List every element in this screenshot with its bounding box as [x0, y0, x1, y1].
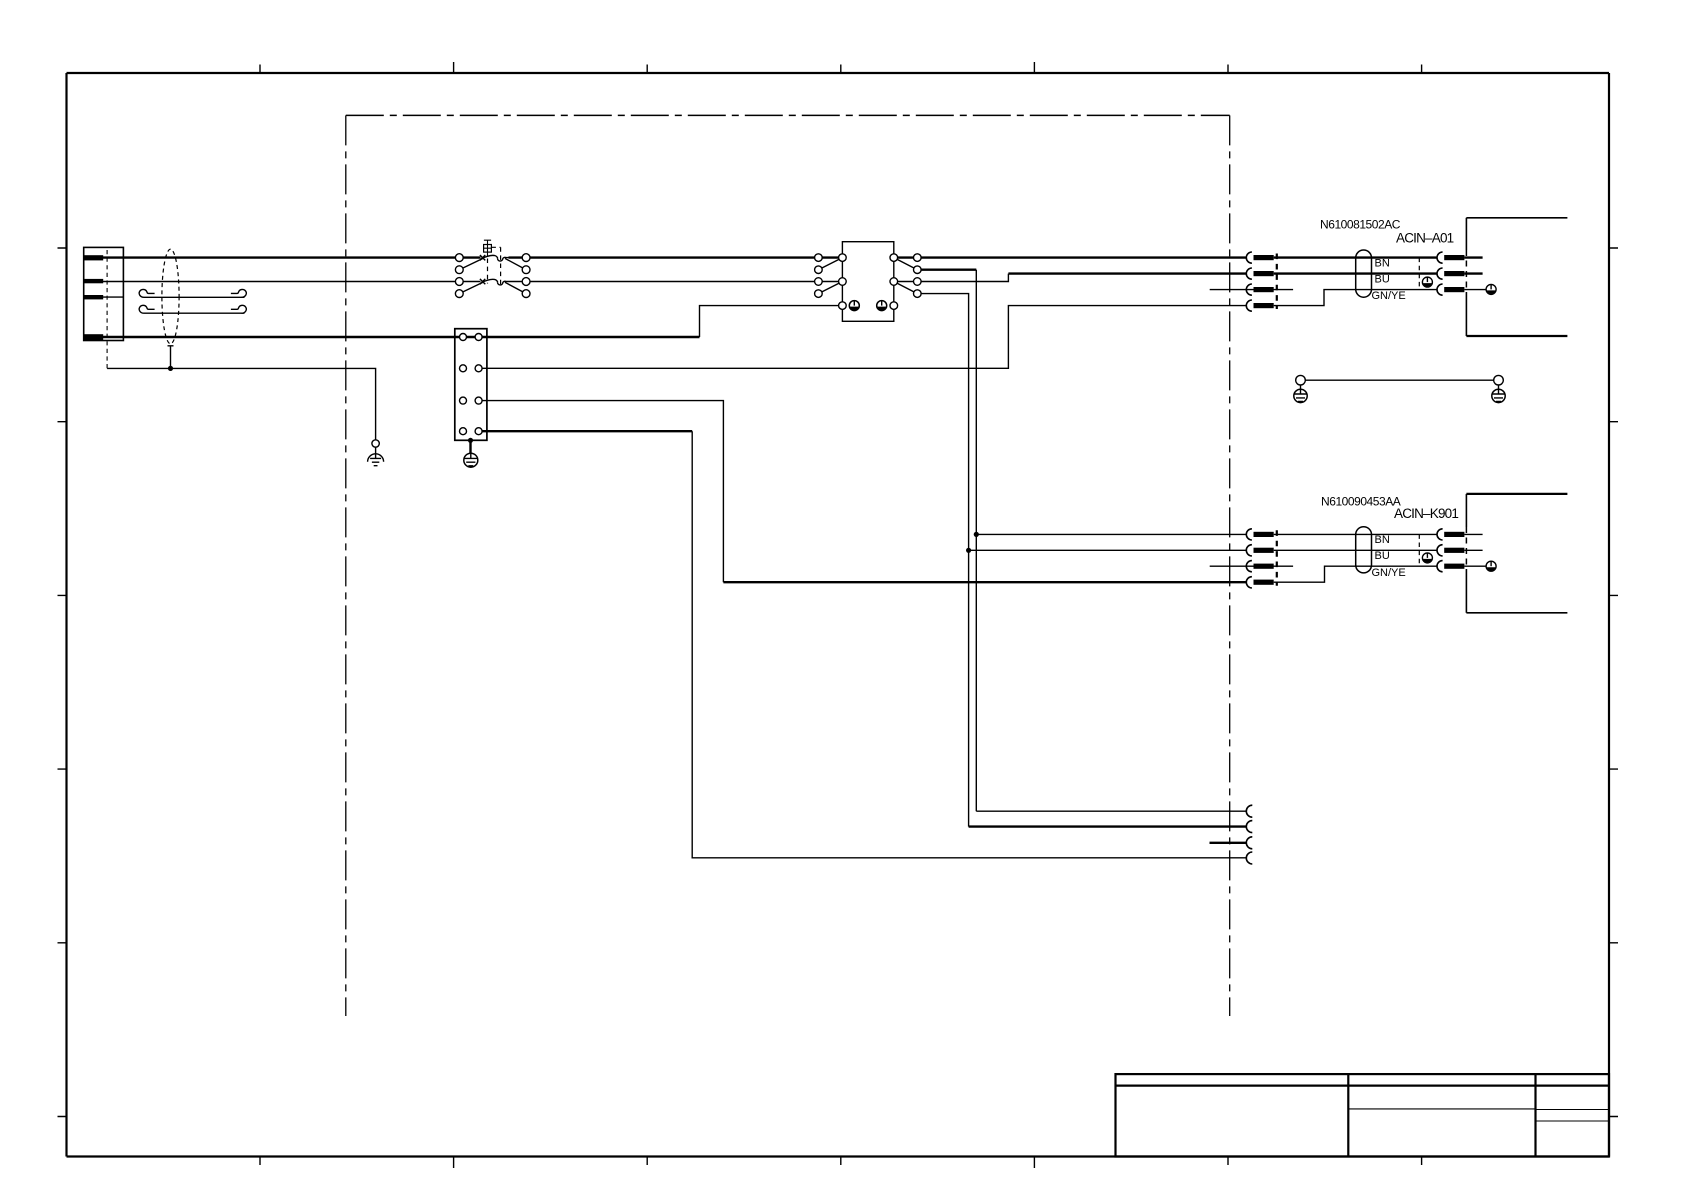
wire BN A01 cable [1274, 256, 1438, 258]
chassis bonding wire between earth posts [1305, 379, 1493, 381]
wire L1 thick filter left pair [822, 256, 842, 258]
spare jumper wire 2 (hooked ends) [139, 305, 246, 313]
wire PE thick from connector X1 to terminal strip [103, 336, 479, 338]
terminal strip X2 [455, 329, 487, 441]
wire GN/YE terminal strip row3 to coil 4 ACIN-K901 [482, 401, 723, 583]
device box ACIN-K901 [1466, 494, 1567, 613]
wire N thin filter left pair [822, 281, 842, 283]
filter internal earth symbol 2 [877, 301, 887, 311]
bottom spare connector coils [1246, 805, 1252, 864]
wire N filter to step-up jog then thick to coil BU A01 [894, 274, 1009, 282]
wire BU K901 cable [1274, 549, 1438, 551]
svg-text:GN/YE: GN/YE [1372, 567, 1406, 579]
connector X1 (input plug) [84, 247, 124, 368]
svg-text:BU: BU [1375, 273, 1390, 285]
filter internal earth symbol 1 [849, 301, 859, 311]
connector coils ACIN-A01 cable side [1210, 252, 1293, 311]
wire L1 thick filter right to connector coil BN A01 [894, 256, 1247, 258]
earth contact symbol A01 right [1486, 284, 1496, 294]
wire N thin breaker to filter [530, 281, 819, 283]
junction shield drain [168, 366, 173, 371]
svg-text:GN/YE: GN/YE [1372, 290, 1406, 302]
earth contact symbol K901 right [1486, 561, 1496, 571]
svg-text:N610090453AA: N610090453AA [1321, 495, 1401, 509]
device box ACIN-A01 [1466, 218, 1567, 336]
cable symbol N610090453AA [1356, 527, 1372, 573]
circuit breaker Q1 (2-pole plug-in) [455, 240, 530, 297]
wire BU A01 cable [1274, 272, 1438, 274]
protective earth symbol under terminal strip [464, 453, 478, 467]
svg-text:BN: BN [1375, 257, 1390, 269]
connector coils ACIN-K901 cable side [1210, 529, 1293, 588]
earth post left [1294, 375, 1307, 402]
GN/YE jog A01 coil4 to plug [1274, 290, 1438, 306]
wire L1 thick breaker to filter [530, 256, 819, 258]
wire filter output down-feed 1 to ACIN-K901 BN and bottom spare 1 [917, 270, 1246, 812]
enclosure boundary (dash-dot chassis outline) [346, 115, 1230, 1016]
svg-text:ACIN–K901: ACIN–K901 [1394, 506, 1458, 521]
earth contact symbol K901 left [1422, 553, 1432, 563]
wire N thin from connector X1 to breaker [103, 281, 456, 283]
svg-text:BN: BN [1375, 534, 1390, 546]
wire L1 thick from connector X1 to breaker [103, 256, 456, 258]
GN/YE jog K901 coil4 to plug [1274, 566, 1438, 582]
wire shield drain from connector X1 to chassis earth [107, 368, 376, 439]
title block (empty) [1116, 1074, 1610, 1156]
earth contact symbol A01 left [1422, 277, 1432, 287]
cable symbol N610081502AC [1356, 250, 1372, 297]
cable shield ellipse [162, 249, 179, 368]
plug contacts ACIN-K901 device side [1419, 529, 1486, 572]
svg-text:BU: BU [1375, 550, 1390, 562]
earth post right [1492, 375, 1505, 402]
bottom spare stub wire 3 [1210, 842, 1247, 844]
svg-text:N610081502AC: N610081502AC [1320, 218, 1401, 232]
wire PE from terminal strip row1 up to filter bottom circle [482, 336, 700, 338]
chassis earth symbol at shield drain [368, 440, 384, 466]
EMI filter Z1 [815, 242, 921, 322]
wire terminal strip row4 to bottom spare 4 [482, 430, 692, 432]
spare jumper wire 1 (hooked ends) [139, 289, 246, 297]
terminal strip earth wire and dot [468, 438, 473, 454]
wire BN K901 cable [1274, 533, 1438, 535]
wire filter output down-feed 2 to ACIN-K901 BU and bottom spare 2 [917, 294, 1246, 827]
wire GN/YE terminal strip row2 to coil 4 ACIN-A01 [482, 306, 1246, 369]
svg-text:ACIN–A01: ACIN–A01 [1396, 230, 1454, 245]
plug contacts ACIN-A01 device side [1419, 252, 1486, 295]
